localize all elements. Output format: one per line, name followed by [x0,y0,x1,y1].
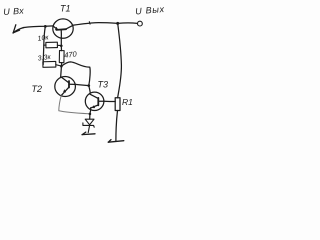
wire output junction down to R1 [118,23,122,97]
node T1 base / 10K junction [60,45,63,48]
node T2 base / T3 collector [88,84,91,87]
wire R1 to ground [116,111,118,141]
input terminal arrow [13,25,24,33]
wire node down to T3 [89,86,90,93]
transistor T1 [53,19,73,38]
svg-text:T1: T1 [60,4,71,14]
wire junction to output terminal [118,22,138,25]
wire T1 base down to junction [60,38,62,46]
wire tick mark [88,22,91,25]
ground below zener [82,132,95,135]
transistor T3 [85,92,104,110]
wire input rail to T1 [23,26,53,28]
wire junction down to T2 collector [60,66,63,76]
wire T1 collector to output junction [73,23,118,26]
wire node to zener anode [89,114,91,119]
svg-text:T3: T3 [98,80,109,90]
wire left divider vertical [43,26,45,64]
node input/divider junction [44,25,47,28]
wire junction across to T3 collector [61,62,90,86]
wire T2 emitter down and right to zener node [59,96,89,114]
wire T2 base to T3 collector node [75,84,88,85]
resistor 10K [44,42,61,48]
svg-text:470: 470 [64,49,78,59]
wire 470 to lower junction [60,63,62,67]
node output junction [116,22,119,25]
wire junction to 470 [60,46,62,51]
resistor 470 [59,51,64,63]
transistor T2 [55,77,76,97]
zener diode D1 [83,119,94,132]
ground below R1 [108,140,124,143]
svg-text:T2: T2 [32,84,43,94]
resistor 3.3K [43,61,61,67]
output terminal circle [138,21,143,26]
node divider lower junction [60,65,63,68]
label U Bx (input voltage) [3,6,25,17]
svg-text:U Вх: U Вх [3,6,25,17]
node zener junction [89,113,92,116]
wire T3 emitter to zener node [89,108,92,114]
resistor R1 [115,98,120,111]
svg-text:R1: R1 [122,97,133,107]
wire T3 base to R1 [104,100,115,102]
